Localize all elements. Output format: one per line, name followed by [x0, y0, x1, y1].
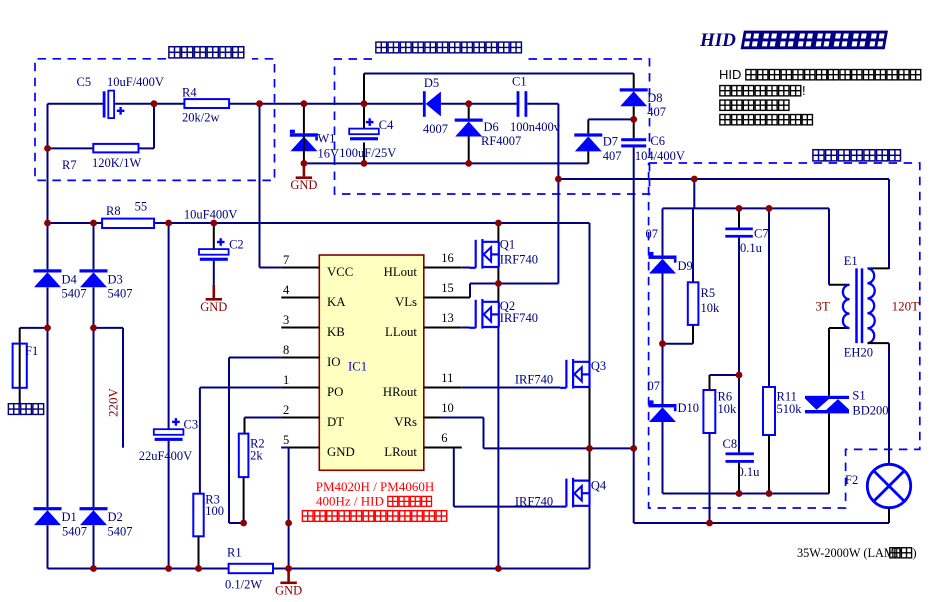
svg-text:10uF/400V: 10uF/400V [107, 75, 164, 89]
node gnd rail [285, 565, 292, 572]
pin 15 (VLs) [424, 297, 462, 299]
wire R5 top lead [692, 208, 694, 282]
wire pin2 to R2 [244, 418, 246, 434]
wire C8 top lead [738, 375, 740, 452]
svg-text:11: 11 [441, 371, 453, 385]
wire pin6 to Q4 gate [454, 506, 560, 508]
wire C4 top lead [363, 104, 365, 129]
svg-text:7: 7 [283, 253, 289, 267]
wire W1 top lead [303, 104, 305, 134]
svg-text:HLout: HLout [384, 265, 418, 279]
node C7 top [736, 205, 743, 212]
op-amp/driver module IC1 (PM4020H) [319, 255, 424, 470]
wire R6 top lead [709, 375, 711, 390]
svg-text:5: 5 [283, 433, 289, 447]
svg-text:D1: D1 [62, 510, 77, 524]
svg-text:6: 6 [441, 431, 447, 445]
wire pin8 drop [228, 358, 230, 524]
wire aux rail y163 [304, 162, 588, 164]
node W1 bottom [301, 160, 308, 167]
svg-text:220V: 220V [106, 388, 121, 418]
svg-text:07: 07 [646, 227, 659, 241]
capacitor C7 [725, 228, 753, 231]
winding 120T [868, 268, 875, 343]
wire pin10 wire [439, 417, 484, 419]
wire D8-D7 jog [588, 118, 633, 120]
svg-text:13: 13 [441, 311, 454, 325]
node D6 bottom [465, 160, 472, 167]
svg-text:120K/1W: 120K/1W [92, 156, 142, 170]
wire R7 up [153, 104, 155, 149]
svg-text:C4: C4 [379, 118, 394, 132]
wire C6 top lead [633, 119, 635, 138]
wire C2 top lead [213, 223, 215, 249]
sidac S1 [805, 396, 849, 399]
node AC tap [90, 325, 97, 332]
wire lamp bottom lead [888, 508, 890, 523]
capacitor C6 [621, 138, 646, 141]
label line3 (red) [302, 511, 313, 522]
node D6 top [465, 100, 472, 107]
wire C4 bottom lead [363, 143, 365, 164]
wire C3 top lead [168, 223, 170, 429]
diode D4 [34, 269, 62, 287]
svg-text:IO: IO [327, 355, 341, 369]
svg-text:10k: 10k [718, 402, 738, 416]
wire R7 right [139, 147, 155, 149]
wire R6 bottom long [709, 433, 711, 523]
section label 启动供电部分 [169, 47, 180, 58]
node gnd node [285, 520, 292, 527]
wire left rail lower [47, 525, 49, 568]
svg-text:15: 15 [441, 281, 454, 295]
svg-text:D9: D9 [678, 259, 693, 273]
wire AC stub [94, 327, 124, 329]
resistor R2 [239, 434, 249, 478]
svg-text:510k: 510k [777, 402, 803, 416]
svg-text:D4: D4 [62, 273, 78, 287]
wire lamp return rail [634, 522, 889, 524]
capacitor C2 [199, 249, 229, 255]
pin 5 (GND) [281, 447, 319, 449]
svg-text:5407: 5407 [62, 525, 87, 539]
wire bottom rail right [273, 568, 590, 570]
node rail2 left [44, 220, 51, 227]
svg-text:07: 07 [648, 379, 661, 393]
ground (main) [287, 569, 290, 582]
wire W1 bottom lead [303, 136, 305, 163]
svg-text:IRF740: IRF740 [500, 253, 538, 267]
pin 1 (PO) [281, 387, 319, 389]
wire Q2 source long [497, 327, 499, 569]
svg-text:GND: GND [200, 300, 227, 314]
pin 8 (IO) [281, 357, 319, 359]
svg-text:LRout: LRout [384, 445, 417, 459]
wire C6 long column [633, 147, 635, 448]
wire pin16 to Q1 gate [462, 267, 470, 269]
section label 由高压吸收网络转供电部分 [376, 42, 387, 53]
wire pin10 drop [483, 418, 485, 449]
resistor R7 [93, 144, 138, 153]
wire R3 bottom lead [198, 536, 200, 568]
node R7 left [44, 145, 51, 152]
wire to 120T top [868, 267, 890, 269]
wire VLs sense wire [470, 283, 558, 285]
svg-text:407: 407 [603, 149, 622, 163]
diode D3 [80, 269, 108, 287]
svg-text:D6: D6 [484, 120, 499, 134]
node netA left [555, 176, 562, 183]
svg-text:R4: R4 [182, 86, 197, 100]
wire lamp top lead [888, 343, 890, 464]
svg-text:407: 407 [647, 105, 666, 119]
wire C2 bottom lead [213, 261, 215, 285]
resistor R11 [763, 387, 775, 435]
svg-text:R1: R1 [227, 546, 242, 560]
wire netA drop [693, 179, 695, 208]
transistor Q1 (MOSFET) [469, 239, 499, 269]
zener diode W1 [290, 130, 318, 152]
svg-text:HID: HID [719, 67, 741, 82]
svg-text:R5: R5 [701, 286, 716, 300]
svg-text:PO: PO [327, 385, 343, 399]
section box: startup supply (dashed) [35, 59, 275, 181]
svg-text:1: 1 [283, 373, 289, 387]
svg-text:VLs: VLs [395, 295, 417, 309]
svg-text:LLout: LLout [385, 325, 417, 339]
ground (W1) [303, 163, 306, 176]
description line2 [720, 86, 730, 96]
svg-text:3: 3 [283, 313, 289, 327]
transistor Q3 (MOSFET) [560, 359, 590, 389]
node rail2 D3 [90, 220, 97, 227]
wire pin11 to Q3 gate [462, 387, 560, 389]
wire pin15 jog up [469, 284, 471, 298]
svg-text:): ) [913, 546, 917, 560]
svg-text:GND: GND [275, 583, 302, 597]
svg-text:20k/2w: 20k/2w [182, 111, 220, 125]
wire C5 to R4 [114, 103, 184, 105]
svg-text:0.1/2W: 0.1/2W [225, 578, 262, 592]
resistor R5 [688, 282, 699, 325]
wire VCC drop [259, 104, 261, 268]
svg-text:C6: C6 [650, 134, 665, 148]
node D2 rail [90, 565, 97, 572]
svg-text:S1: S1 [852, 389, 865, 403]
node half-bridge hi [495, 280, 502, 287]
node R11 top [766, 205, 773, 212]
wire bottom rail left [48, 568, 229, 570]
wire C7 top lead [738, 208, 740, 227]
pin 3 (KB) [281, 327, 319, 329]
transistor Q2 (MOSFET) [469, 299, 499, 329]
svg-text:GND: GND [290, 178, 317, 192]
wire Q4 source [589, 506, 591, 569]
wire D7 top lead [587, 119, 589, 133]
wire D8 bottom lead [633, 106, 635, 119]
svg-text:4007: 4007 [423, 122, 448, 136]
wire netA right down [888, 179, 890, 269]
node C8 bottom [736, 490, 743, 497]
wire to 3T top [829, 284, 850, 286]
node C5/R7 [151, 100, 158, 107]
wire output down [633, 448, 635, 523]
diode D6 [455, 119, 483, 137]
svg-text:35W-2000W (LAMP: 35W-2000W (LAMP [797, 546, 902, 560]
wire R5 to D9 node [663, 343, 694, 345]
svg-text:2k: 2k [250, 449, 263, 463]
node D8/D7/C6 [630, 116, 637, 123]
node output node [630, 445, 637, 452]
node C3 rail [165, 565, 172, 572]
wire pin2 wire [245, 417, 282, 419]
wire R7 left [48, 147, 94, 149]
diode D8 [620, 88, 648, 106]
wire D9-D10 link [662, 274, 664, 405]
section box: HV absorb network supply (dashed) [335, 59, 650, 194]
svg-text:C3: C3 [184, 418, 199, 432]
node C3 tap [165, 220, 172, 227]
diode D2 [80, 507, 108, 525]
wire netB down [828, 208, 830, 284]
svg-text:F2: F2 [845, 473, 858, 487]
wire rail2 seg1 [48, 222, 110, 224]
node Q1 drain tap [495, 220, 502, 227]
resistor R6 [703, 390, 715, 433]
wire S1 top lead [828, 328, 830, 396]
svg-text:C2: C2 [229, 238, 244, 252]
node R11 bottom [766, 490, 773, 497]
capacitor C5 [103, 91, 106, 117]
svg-text:400Hz / HID: 400Hz / HID [316, 494, 384, 509]
wire Q1 source [497, 267, 499, 284]
svg-text:C7: C7 [754, 227, 769, 241]
pin 7 (VCC) [281, 267, 319, 269]
svg-text:16V: 16V [318, 147, 340, 161]
zener diode D10 [649, 400, 677, 422]
lamp F2 [867, 464, 910, 507]
capacitor C4 [349, 129, 379, 135]
wire top drop to C4 [363, 74, 365, 104]
wire rail2 mid [93, 287, 95, 507]
wire VCC wire [260, 267, 282, 269]
pin 11 (HRout) [424, 387, 462, 389]
wire fuse stub [20, 327, 48, 329]
wire R11 bottom lead [768, 435, 770, 494]
wire HV+ rail [154, 222, 590, 224]
node C2 tap [210, 220, 217, 227]
wire top wire [364, 73, 634, 75]
winding 3T [843, 285, 850, 328]
label 保险管 [8, 404, 19, 415]
svg-text:VCC: VCC [327, 265, 353, 279]
wire pin8 wire [229, 357, 281, 359]
svg-text:EH20: EH20 [844, 346, 873, 360]
svg-text:Q4: Q4 [591, 479, 607, 493]
transformer E1 [855, 268, 858, 343]
wire 120T bottom [868, 342, 890, 344]
svg-text:100: 100 [205, 504, 224, 518]
svg-text:10k: 10k [701, 301, 721, 315]
wire main to C5 [48, 103, 104, 105]
wire D6 top lead [468, 104, 470, 119]
wire D7 bottom lead [587, 151, 589, 163]
wire pin5 drop [288, 448, 290, 569]
wire net A [558, 178, 889, 180]
capacitor C3 [154, 429, 184, 435]
node R6/rail [706, 520, 713, 527]
resistor R3 [193, 494, 203, 537]
node Q2 rail [495, 565, 502, 572]
wire R2 bottom lead [243, 477, 245, 523]
svg-text:10: 10 [441, 401, 454, 415]
wire C8 bottom lead [738, 463, 740, 494]
svg-text:Q3: Q3 [591, 359, 606, 373]
svg-text:KB: KB [327, 325, 345, 339]
wire D10 bottom lead [662, 422, 664, 494]
wire left rail mid [47, 287, 49, 507]
node VCC tap [256, 100, 263, 107]
svg-text:C8: C8 [723, 437, 738, 451]
pin 16 (HLout) [424, 267, 462, 269]
svg-text:F1: F1 [25, 344, 38, 358]
pin 4 (KA) [281, 297, 319, 299]
svg-text:KA: KA [327, 295, 346, 309]
wire D5 to C1 [441, 103, 517, 105]
wire Q1 drain [497, 223, 499, 242]
node netA mid [691, 176, 698, 183]
wire pin15 stub2 [424, 297, 470, 299]
pin 6 (LRout) [424, 447, 462, 449]
svg-text:0.1u: 0.1u [740, 241, 763, 255]
wire C3 bottom lead [168, 441, 170, 569]
diode D7 [574, 133, 602, 151]
wire half-bridge out [484, 447, 634, 449]
wire R11 top lead [768, 208, 770, 387]
node W1 top [301, 100, 308, 107]
diode D1 [34, 507, 62, 525]
svg-text:4: 4 [283, 283, 290, 297]
svg-text:W1: W1 [318, 132, 336, 146]
wire vertical x558 [557, 104, 559, 284]
wire rail2 upper [93, 223, 95, 269]
svg-text:D2: D2 [108, 510, 123, 524]
wire trigger bottom wire [663, 493, 830, 495]
wire pin8 to R2 node [229, 522, 244, 524]
svg-text:55: 55 [135, 200, 148, 214]
svg-text:16: 16 [441, 251, 454, 265]
wire pin1 drop to R3 [199, 388, 201, 494]
svg-text:VRs: VRs [394, 415, 417, 429]
svg-text:R7: R7 [62, 158, 77, 172]
node Q3/Q4 mid [586, 445, 593, 452]
wire AC input 220V [122, 328, 124, 448]
node C4 bottom [361, 160, 368, 167]
svg-text:HRout: HRout [383, 385, 418, 399]
wire D8 top lead [633, 74, 635, 89]
wire D9 top lead [662, 208, 664, 255]
wire to 3T bottom [829, 327, 850, 329]
zener diode D9 [649, 252, 677, 274]
svg-text:HID: HID [699, 30, 736, 51]
wire net B [663, 207, 830, 209]
svg-text:0.1u: 0.1u [738, 465, 761, 479]
svg-text:3T: 3T [815, 299, 830, 314]
svg-text:R8: R8 [106, 204, 121, 218]
pin 2 (DT) [281, 417, 319, 419]
svg-text:2: 2 [283, 403, 289, 417]
svg-text:120T: 120T [892, 299, 920, 314]
svg-text:DT: DT [327, 415, 344, 429]
pin 13 (LLout) [424, 327, 462, 329]
svg-text:IC1: IC1 [348, 360, 367, 374]
svg-text:IRF740: IRF740 [500, 311, 538, 325]
wire R4 to D5 [229, 103, 423, 105]
capacitor C8 [726, 452, 754, 455]
resistor R4 [184, 99, 229, 108]
svg-text:D8: D8 [647, 91, 662, 105]
svg-text:D10: D10 [678, 401, 700, 415]
svg-text:BD200: BD200 [852, 404, 888, 418]
svg-text:100uF/25V: 100uF/25V [339, 146, 396, 160]
wire pin5 wire [281, 447, 288, 449]
svg-text:IRF740: IRF740 [515, 495, 553, 509]
svg-text:5407: 5407 [108, 287, 133, 301]
node D9/R5 [659, 340, 666, 347]
svg-text:8: 8 [283, 343, 289, 357]
section box: HV trigger (dashed) [649, 163, 920, 508]
ground (C2) [213, 285, 216, 298]
description line4 [720, 115, 730, 125]
node C4 top [361, 100, 368, 107]
diode D5 [423, 91, 426, 117]
fuse F1 [19, 328, 21, 405]
node R3 rail [195, 565, 202, 572]
wire node to R6 [710, 374, 740, 376]
svg-text:C1: C1 [512, 75, 527, 89]
node R2 bottom [240, 520, 247, 527]
svg-text:5407: 5407 [62, 287, 87, 301]
svg-text:22uF400V: 22uF400V [139, 449, 192, 463]
wire Q3 drain feed [589, 223, 591, 362]
svg-text:100n400v: 100n400v [510, 120, 561, 134]
svg-text:Q1: Q1 [500, 238, 515, 252]
node fuse tap [44, 325, 51, 332]
wire left rail upper [47, 104, 49, 270]
wire pin6 drop [453, 448, 455, 507]
wire Q4 drain [589, 448, 591, 480]
section label 高压触发器部分 [813, 150, 824, 161]
wire Q2 drain [497, 284, 499, 302]
wire R5 bottom lead [692, 325, 694, 344]
wire C1 to corner [527, 103, 558, 105]
svg-text:RF4007: RF4007 [481, 134, 521, 148]
svg-text:GND: GND [327, 445, 355, 459]
svg-text:D5: D5 [424, 76, 439, 90]
description line3 [720, 100, 730, 110]
svg-text:5407: 5407 [108, 525, 133, 539]
wire S1 bottom lead [828, 414, 830, 494]
resistor R1 [229, 564, 273, 573]
svg-text:C5: C5 [77, 75, 92, 89]
svg-text:10uF400V: 10uF400V [184, 208, 237, 222]
wire rail2 lower [93, 525, 95, 568]
capacitor C1 [517, 91, 520, 117]
svg-text:PM4020H / PM4060H: PM4020H / PM4060H [316, 479, 434, 494]
node R6/C8 node [736, 372, 743, 379]
svg-text:D3: D3 [108, 273, 123, 287]
svg-text:E1: E1 [844, 254, 858, 268]
